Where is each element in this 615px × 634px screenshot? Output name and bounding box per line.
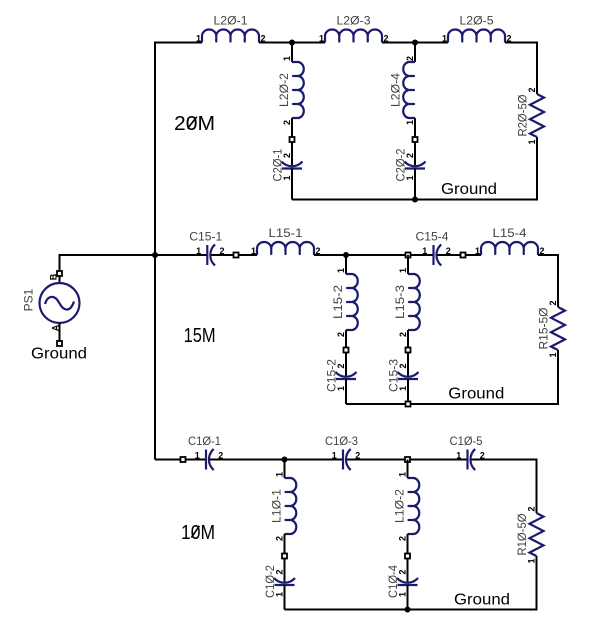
node square C15-1/L15-1 — [234, 253, 239, 258]
wire 15M bottom rail — [346, 403, 559, 405]
wire 10M bottom rail — [285, 609, 538, 611]
svg-text:1: 1 — [196, 246, 201, 256]
wire L20-2 to C20-1 — [291, 118, 293, 165]
wire 20M right rail upper — [536, 42, 538, 95]
inductor L15-2 — [331, 268, 358, 337]
svg-text:2: 2 — [548, 300, 558, 305]
inductor L10-2 — [392, 472, 419, 541]
wire 20M top rail seg4 — [505, 42, 537, 44]
wire 20M top rail seg2 — [259, 42, 325, 44]
svg-text:1: 1 — [332, 450, 337, 460]
svg-text:Ground: Ground — [31, 346, 87, 363]
node junction dot L15-2 tap — [343, 252, 349, 258]
svg-text:1: 1 — [526, 558, 536, 563]
svg-text:1: 1 — [195, 450, 200, 460]
resistor R10-50 — [515, 506, 544, 563]
svg-text:15M: 15M — [184, 325, 216, 347]
svg-text:20M: 20M — [174, 113, 215, 135]
wire L10-2 top lead — [407, 460, 409, 479]
svg-text:2: 2 — [527, 87, 537, 92]
svg-text:PS1: PS1 — [21, 288, 35, 311]
wire 20M top rail seg3 — [382, 42, 448, 44]
inductor L15-4 — [475, 226, 545, 256]
node junction dot L20-4 tap — [412, 40, 418, 46]
svg-text:1: 1 — [275, 472, 285, 477]
wire 15M main seg1 — [155, 254, 207, 256]
wire left vertical bus — [154, 43, 156, 460]
inductor L10-1 — [269, 472, 296, 541]
node square L20-4/C20-2 — [413, 137, 418, 142]
capacitor C15-1 — [189, 229, 224, 265]
svg-text:1: 1 — [282, 175, 292, 180]
wire 15M main seg3 — [314, 254, 434, 256]
wire L20-4 to C20-2 — [414, 118, 416, 165]
svg-text:1: 1 — [336, 386, 346, 391]
node square C15-4/L15-4 — [461, 253, 466, 258]
inductor L20-2 — [277, 56, 304, 125]
svg-text:1: 1 — [456, 450, 461, 460]
svg-text:1: 1 — [274, 592, 284, 597]
wire C15-3 bottom lead — [407, 379, 409, 404]
capacitor C15-2 — [324, 359, 356, 392]
svg-text:10M: 10M — [181, 522, 215, 544]
svg-text:L15-2: L15-2 — [331, 285, 345, 319]
node junction dot C20-2 bottom — [412, 197, 418, 203]
inductor L20-1 — [196, 14, 266, 44]
wire L20-2 top lead — [291, 43, 293, 63]
inductor L20-4 — [388, 56, 415, 125]
svg-text:L2Ø-3: L2Ø-3 — [337, 14, 371, 28]
svg-text:C1Ø-3: C1Ø-3 — [325, 434, 358, 448]
svg-text:1: 1 — [397, 592, 407, 597]
svg-text:1: 1 — [319, 33, 324, 43]
svg-text:2: 2 — [275, 536, 285, 541]
svg-text:L1Ø-1: L1Ø-1 — [269, 489, 283, 523]
svg-text:L15-1: L15-1 — [269, 226, 303, 240]
wire PS1 to bus — [60, 254, 157, 256]
capacitor C20-1 — [270, 148, 302, 181]
node square L20-2/C20-1 — [290, 137, 295, 142]
inductor L20-3 — [319, 14, 389, 44]
wire 10M main seg1 — [155, 459, 206, 461]
svg-text:1: 1 — [548, 352, 558, 357]
wire 10M right rail upper — [536, 459, 538, 514]
wire PS1 bottom lead — [59, 323, 61, 344]
svg-text:2: 2 — [398, 363, 408, 368]
resistor R20-50 — [515, 87, 544, 144]
svg-text:L2Ø-5: L2Ø-5 — [460, 14, 494, 28]
wire 15M right rail lower — [557, 350, 559, 404]
wire C15-2 bottom lead — [345, 379, 347, 404]
inductor L20-5 — [442, 14, 512, 44]
inductor L15-3 — [393, 268, 420, 337]
label band 10M — [181, 522, 215, 544]
svg-text:2: 2 — [405, 56, 415, 61]
svg-text:R1Ø-5Ø: R1Ø-5Ø — [515, 514, 529, 556]
wire 15M main seg2 — [211, 254, 257, 256]
svg-text:C1Ø-5: C1Ø-5 — [450, 434, 483, 448]
power source PS1 — [21, 273, 79, 331]
wire 10M main seg4 — [471, 459, 536, 461]
svg-text:1: 1 — [398, 268, 408, 273]
capacitor C15-4 — [416, 229, 451, 265]
svg-text:2: 2 — [405, 153, 415, 158]
wire C20-2 bottom lead — [414, 169, 416, 200]
wire L15-2 to C15-2 — [345, 330, 347, 376]
svg-text:1: 1 — [196, 33, 201, 43]
svg-text:C15-4: C15-4 — [416, 229, 449, 243]
label band 20M — [174, 113, 215, 135]
wire 10M right rail lower — [536, 556, 538, 610]
svg-text:2: 2 — [274, 569, 284, 574]
svg-text:2: 2 — [398, 332, 408, 337]
svg-text:2: 2 — [336, 363, 346, 368]
svg-text:L2Ø-4: L2Ø-4 — [388, 73, 402, 107]
svg-text:1: 1 — [282, 56, 292, 61]
svg-text:C15-1: C15-1 — [189, 229, 222, 243]
wire C20-1 bottom lead — [291, 169, 293, 200]
node square PS1 pin B — [57, 271, 62, 276]
capacitor C20-2 — [393, 148, 425, 181]
svg-text:L2Ø-1: L2Ø-1 — [214, 14, 248, 28]
svg-text:Ground: Ground — [448, 386, 504, 403]
svg-text:1: 1 — [527, 139, 537, 144]
ground terminal PS1 — [57, 341, 62, 346]
svg-text:2: 2 — [282, 120, 292, 125]
capacitor C10-3 — [325, 434, 360, 470]
wire C10-4 bottom lead — [407, 585, 409, 610]
svg-text:1: 1 — [475, 246, 480, 256]
capacitor C10-1 — [188, 434, 223, 470]
svg-text:Ground: Ground — [441, 181, 497, 198]
wire 20M top rail seg1 — [154, 42, 202, 44]
resistor R15-50 — [536, 300, 565, 357]
svg-text:1: 1 — [398, 386, 408, 391]
node square L15-3/C15-3 — [406, 348, 411, 353]
capacitor C15-3 — [386, 359, 418, 392]
node square bus/C10-1 — [181, 457, 186, 462]
wire L10-2 to C10-4 — [407, 534, 409, 582]
capacitor C10-5 — [450, 434, 485, 470]
wire L15-3 top lead — [407, 255, 409, 274]
svg-text:Ground: Ground — [454, 592, 510, 609]
wire 10M main seg2 — [210, 459, 343, 461]
node junction dot L10-1 tap — [282, 457, 288, 463]
wire 10M main seg3 — [347, 459, 468, 461]
svg-text:2: 2 — [398, 536, 408, 541]
node square L15-2/C15-2 — [344, 348, 349, 353]
wire 20M right rail lower — [536, 137, 538, 200]
node square L15-3 tap — [406, 253, 411, 258]
svg-text:L15-3: L15-3 — [393, 285, 407, 319]
svg-text:2: 2 — [526, 506, 536, 511]
svg-text:L1Ø-2: L1Ø-2 — [392, 489, 406, 523]
svg-text:1: 1 — [336, 268, 346, 273]
capacitor C10-4 — [386, 565, 418, 598]
inductor L15-1 — [251, 226, 321, 256]
node junction dot C10-4 bottom — [405, 607, 411, 613]
svg-text:L2Ø-2: L2Ø-2 — [277, 73, 291, 107]
svg-text:R15-5Ø: R15-5Ø — [536, 308, 550, 350]
svg-text:B: B — [48, 273, 58, 280]
node square L10-2/C10-4 — [405, 554, 410, 559]
node junction dot source/bus — [152, 252, 158, 258]
svg-text:R2Ø-5Ø: R2Ø-5Ø — [515, 95, 529, 137]
svg-text:2: 2 — [336, 332, 346, 337]
svg-text:L15-4: L15-4 — [493, 226, 527, 240]
node square L10-1/C10-2 — [282, 554, 287, 559]
svg-text:1: 1 — [251, 246, 256, 256]
wire 15M main seg4 — [437, 254, 481, 256]
node junction dot L20-2 tap — [289, 40, 295, 46]
wire L10-1 top lead — [284, 460, 286, 479]
svg-text:1: 1 — [398, 472, 408, 477]
wire L20-4 top lead — [414, 43, 416, 63]
svg-text:1: 1 — [422, 246, 427, 256]
svg-text:C1Ø-1: C1Ø-1 — [188, 434, 221, 448]
wire L10-1 to C10-2 — [284, 534, 286, 582]
node square L10-2 tap — [405, 457, 410, 462]
wire PS1 top lead — [59, 254, 61, 284]
svg-text:1: 1 — [442, 33, 447, 43]
svg-text:1: 1 — [405, 175, 415, 180]
svg-text:1: 1 — [405, 120, 415, 125]
wire 20M bottom rail — [292, 199, 538, 201]
svg-text:2: 2 — [397, 569, 407, 574]
capacitor C10-2 — [263, 565, 295, 598]
wire C10-2 bottom lead — [284, 585, 286, 610]
node square C15-3 bottom — [406, 402, 411, 407]
svg-text:2: 2 — [282, 153, 292, 158]
wire 15M main seg5 — [538, 254, 558, 256]
wire L15-3 to C15-3 — [407, 330, 409, 376]
wire L15-2 top lead — [345, 255, 347, 274]
wire 15M right rail upper — [557, 254, 559, 307]
